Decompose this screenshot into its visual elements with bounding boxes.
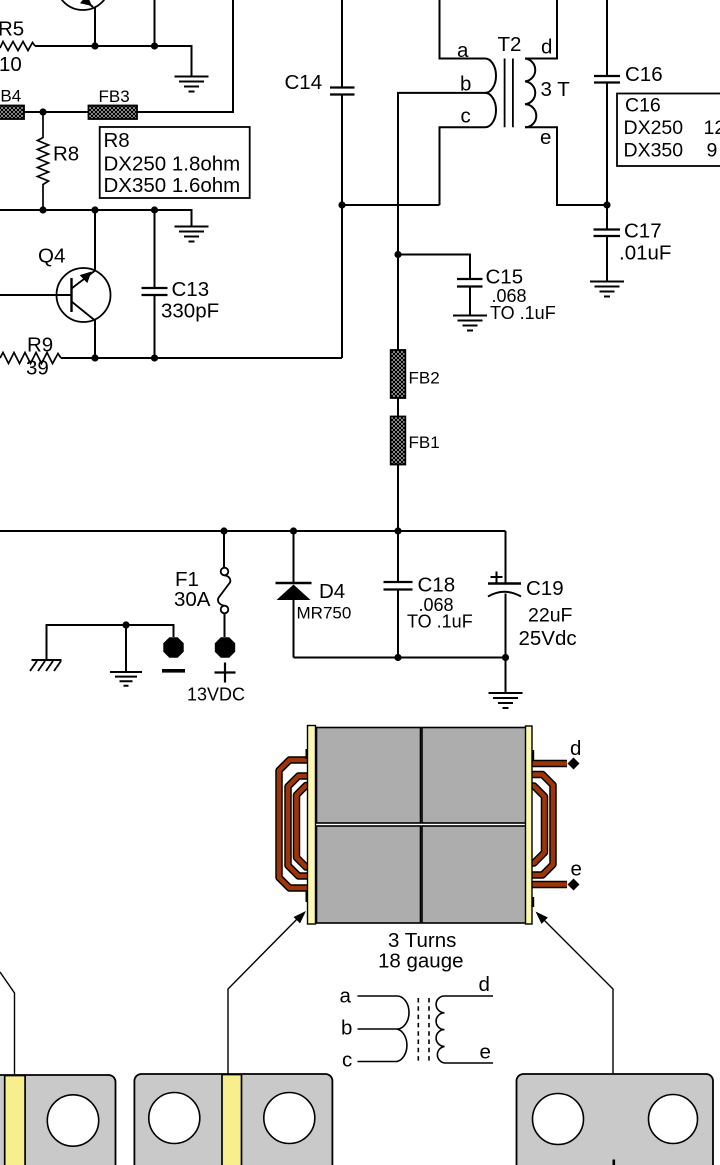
svg-text:C19: C19 <box>526 577 564 600</box>
wire b-tap down <box>397 255 399 351</box>
svg-text:DX350 1.6ohm: DX350 1.6ohm <box>104 174 241 197</box>
wire vertical from top edge <box>154 0 156 46</box>
ground (battery) <box>110 672 142 686</box>
svg-text:Q4: Q4 <box>38 245 65 268</box>
package middle hole 1 <box>149 1093 200 1144</box>
node: F1 tap <box>220 527 227 534</box>
toroid tape strip right <box>526 726 533 924</box>
package middle hole 2 <box>264 1093 315 1144</box>
svg-text:TO .1uF: TO .1uF <box>490 303 556 323</box>
note box C16 values <box>617 94 720 167</box>
terminal - <box>163 637 183 657</box>
capacitor C17 <box>594 230 621 282</box>
transformer T2 secondary lead e <box>525 127 607 205</box>
svg-text:d: d <box>479 973 490 996</box>
svg-text:R9: R9 <box>27 334 53 357</box>
note box R8 values <box>100 127 250 198</box>
svg-text:DX250 1.8ohm: DX250 1.8ohm <box>104 153 241 176</box>
svg-text:FB3: FB3 <box>99 87 130 106</box>
wire C15 branch <box>398 255 470 279</box>
svg-text:d: d <box>541 36 552 59</box>
plus sign <box>215 663 236 683</box>
svg-text:MR750: MR750 <box>297 604 352 623</box>
svg-text:FB2: FB2 <box>409 369 440 388</box>
ground (C15) <box>453 316 487 331</box>
wire main 13V rail <box>0 530 506 532</box>
toroid winding right loop outer <box>531 775 553 876</box>
xfmr diagram secondary winding <box>436 996 444 1063</box>
transistor Q3 (partially cut at top) <box>56 0 110 10</box>
toroid core quadrant top-right <box>422 728 526 824</box>
ferrite bead FB4 <box>0 106 24 120</box>
node: Q4 emitter junction <box>91 354 98 361</box>
svg-text:12: 12 <box>704 117 720 139</box>
svg-text:e: e <box>480 1041 491 1064</box>
svg-text:13VDC: 13VDC <box>187 685 245 705</box>
svg-text:b: b <box>460 73 471 96</box>
wire Q4 collector up <box>94 210 96 271</box>
wire FB4 to FB3 <box>24 111 89 113</box>
capacitor C14 <box>330 0 355 358</box>
wire-behind marks left <box>306 749 309 759</box>
xfmr diagram secondary lead d <box>445 995 494 997</box>
svg-text:a: a <box>457 39 469 62</box>
wire to earth ground <box>125 625 127 672</box>
resistor R5 <box>0 42 35 51</box>
node: D4 tap <box>290 527 297 534</box>
wire top node row <box>35 46 192 77</box>
node: vertical feed junction <box>151 42 158 49</box>
arrow to right strip <box>537 913 613 1073</box>
ground (mid left) <box>175 227 209 242</box>
toroid winding left loop middle <box>288 776 313 876</box>
node: C18 bottom <box>394 654 401 661</box>
svg-text:22uF: 22uF <box>528 605 573 627</box>
transformer T2 primary winding <box>485 59 496 128</box>
svg-text:FB1: FB1 <box>409 433 440 452</box>
svg-text:9: 9 <box>707 140 718 162</box>
package right hole 2 <box>649 1095 698 1144</box>
wire Q3 emitter to node <box>94 7 96 46</box>
capacitor C19 (electrolytic) <box>488 531 521 658</box>
transformer T2 primary tap b <box>398 93 485 255</box>
arrow from left edge to left package <box>0 972 15 1075</box>
transformer T2 secondary winding <box>525 59 536 128</box>
xfmr diagram primary winding <box>397 996 409 1062</box>
toroid core quadrant top-left <box>317 728 421 824</box>
transformer T2 core <box>505 59 513 128</box>
xfmr diagram core (dashed) <box>418 998 429 1063</box>
node: C14/c junction <box>338 201 345 208</box>
package middle tape stripe <box>222 1075 242 1165</box>
svg-text:C13: C13 <box>172 278 210 301</box>
node: C17 junction <box>603 201 610 208</box>
xfmr diagram secondary lead e <box>445 1062 494 1064</box>
node: ground bus junction <box>122 621 129 628</box>
chassis ground <box>30 660 62 671</box>
package left tape stripe <box>5 1076 25 1165</box>
svg-text:D4: D4 <box>319 580 345 603</box>
node: FB/C18 tap <box>394 527 401 534</box>
capacitor C18 <box>384 531 413 658</box>
resistor R8 <box>38 112 49 210</box>
svg-text:e: e <box>540 126 551 149</box>
svg-text:R5: R5 <box>0 18 24 41</box>
package left (TO-3 tab) <box>0 1075 116 1165</box>
svg-text:39: 39 <box>26 357 49 380</box>
toroid tape strip left <box>308 726 316 925</box>
svg-text:C14: C14 <box>285 71 323 94</box>
toroid winding left loop inner <box>297 786 314 868</box>
fuse F1 <box>218 531 230 637</box>
svg-text:T2: T2 <box>498 33 522 56</box>
ground (top left) <box>175 77 209 92</box>
svg-text:R8: R8 <box>104 129 130 152</box>
svg-text:C16: C16 <box>625 63 663 86</box>
wire to ground <box>505 658 507 694</box>
toroid lead e <box>531 881 567 889</box>
package right pin mark <box>613 1160 616 1165</box>
wire c-row to C14 <box>342 204 440 206</box>
toroid core quadrant bottom-right <box>422 826 526 923</box>
ground (C17) <box>590 282 624 297</box>
toroid lead d <box>531 760 567 768</box>
node: Q3 emitter junction <box>91 42 98 49</box>
package left hole <box>47 1095 98 1146</box>
transformer T2 primary lead c <box>440 127 486 205</box>
svg-text:3 T: 3 T <box>541 78 571 101</box>
svg-text:DX250: DX250 <box>624 117 684 139</box>
svg-text:e: e <box>571 858 582 881</box>
svg-text:C18: C18 <box>418 574 456 597</box>
diode D4 <box>276 531 312 658</box>
transformer T2 secondary lead d <box>525 0 557 59</box>
svg-text:a: a <box>340 985 352 1008</box>
svg-text:FB4: FB4 <box>0 87 21 106</box>
package right hole 1 <box>533 1094 584 1145</box>
node: C15 tap <box>394 251 401 258</box>
wire Q4 base <box>0 294 72 296</box>
node: C13 bottom junction <box>151 354 158 361</box>
wire FB1 down to main rail <box>397 465 399 532</box>
package right <box>517 1074 714 1165</box>
ground (C19) <box>489 693 523 708</box>
toroid winding right loop inner <box>531 786 545 863</box>
xfmr diagram primary lead c <box>358 1061 398 1063</box>
resistor R9 <box>0 353 61 364</box>
minus sign <box>162 669 185 673</box>
node: Q4 collector junction <box>91 206 98 213</box>
svg-text:18 gauge: 18 gauge <box>378 950 464 973</box>
svg-text:R8: R8 <box>53 143 79 166</box>
ferrite bead FB1 <box>391 417 406 465</box>
arrow to left strip <box>228 913 303 1074</box>
svg-text:.01uF: .01uF <box>619 242 671 265</box>
svg-text:DX350: DX350 <box>624 140 684 162</box>
svg-text:30A: 30A <box>174 588 211 611</box>
svg-text:b: b <box>341 1017 352 1040</box>
svg-text:C17: C17 <box>624 220 662 243</box>
capacitor C13 <box>142 210 168 358</box>
ferrite bead FB2 <box>391 350 406 398</box>
svg-text:d: d <box>570 737 581 760</box>
capacitor C16 <box>594 0 620 229</box>
svg-text:10: 10 <box>0 53 22 76</box>
wire ground bus <box>47 625 174 660</box>
toroid core quadrant bottom-left <box>317 826 421 923</box>
node: C13 top junction <box>151 206 158 213</box>
wire FB3 right and up to top edge <box>137 0 233 112</box>
svg-text:25Vdc: 25Vdc <box>519 627 577 650</box>
wire-behind marks right <box>531 750 534 760</box>
svg-text:330pF: 330pF <box>161 300 219 323</box>
terminal + (13VDC) <box>215 637 235 657</box>
transistor Q4 <box>57 268 111 322</box>
toroid winding left loop outer <box>279 760 313 888</box>
capacitor C15 <box>457 279 483 316</box>
wire FB2 to FB1 <box>397 398 399 417</box>
node: C19 bottom <box>502 654 509 661</box>
ferrite bead FB3 <box>89 106 138 120</box>
xfmr diagram primary lead b <box>358 1028 398 1030</box>
wire emitter row <box>61 357 342 359</box>
wire Q4 emitter down <box>94 320 96 358</box>
package middle <box>134 1074 332 1165</box>
node: R8 top junction <box>39 108 46 115</box>
svg-text:c: c <box>461 105 471 128</box>
wire bottom rail <box>294 657 506 659</box>
svg-text:TO .1uF: TO .1uF <box>407 612 473 632</box>
xfmr diagram primary lead a <box>358 995 398 997</box>
wire mid row <box>0 210 192 227</box>
svg-text:c: c <box>342 1049 352 1072</box>
svg-text:C16: C16 <box>625 95 661 117</box>
node: R8 bottom <box>39 206 46 213</box>
transformer T2 primary lead a <box>440 0 486 59</box>
